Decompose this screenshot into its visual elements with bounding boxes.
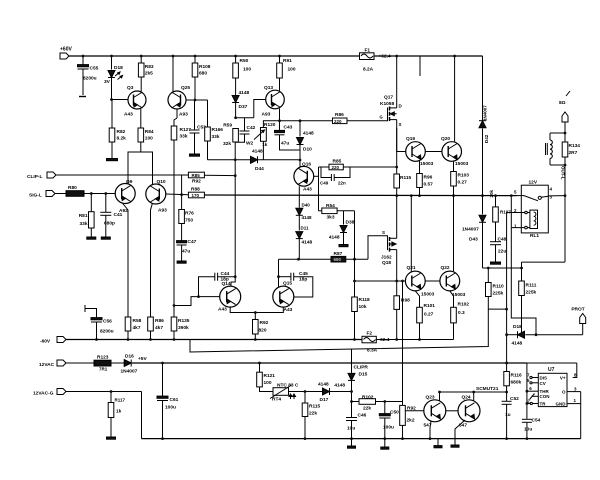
wire R92b drop xyxy=(402,281,404,405)
resistor R84 100 xyxy=(140,109,142,128)
wire R135 node to Q14 base xyxy=(174,297,220,306)
svg-text:4148: 4148 xyxy=(252,149,263,155)
svg-text:22k: 22k xyxy=(363,406,371,412)
svg-text:Q19: Q19 xyxy=(406,136,415,142)
svg-text:S: S xyxy=(399,122,402,127)
svg-text:R117: R117 xyxy=(115,398,126,403)
svg-text:4148: 4148 xyxy=(512,341,523,347)
relay contact xyxy=(517,195,524,197)
svg-text:Q22: Q22 xyxy=(441,265,450,271)
svg-text:12VAC: 12VAC xyxy=(39,362,55,368)
svg-text:1N4007: 1N4007 xyxy=(121,369,138,375)
svg-text:R116: R116 xyxy=(511,373,523,379)
resistor R98 xyxy=(396,281,398,296)
svg-text:D16: D16 xyxy=(125,354,134,360)
wire Q25 emitter to R127 xyxy=(176,109,178,118)
svg-text:22n: 22n xyxy=(338,181,346,186)
svg-text:A43: A43 xyxy=(303,187,312,193)
diode D10 4148 xyxy=(299,121,301,137)
svg-text:47u: 47u xyxy=(281,141,289,147)
svg-text:A93: A93 xyxy=(262,112,271,118)
svg-text:100u: 100u xyxy=(383,425,394,431)
svg-text:D42: D42 xyxy=(484,134,489,143)
resistor R111 225k xyxy=(522,261,566,263)
wire R54 drop to R118 xyxy=(354,211,356,297)
resistor R118 10k xyxy=(352,297,358,312)
svg-text:R58: R58 xyxy=(133,318,142,324)
svg-text:15003: 15003 xyxy=(452,292,466,298)
IC U7 555 timer xyxy=(538,373,567,406)
wire D18 to Q3 base xyxy=(110,98,113,101)
svg-text:R135: R135 xyxy=(178,318,190,324)
svg-text:8200u: 8200u xyxy=(100,329,114,335)
svg-text:TR: TR xyxy=(540,402,547,407)
resistor R102 0.3 xyxy=(450,291,454,307)
svg-text:680p: 680p xyxy=(104,221,115,227)
relay RL1 box 12V xyxy=(521,185,548,233)
wire R59 bottom to node xyxy=(234,142,236,176)
resistor R80 xyxy=(55,193,66,195)
svg-text:PROT: PROT xyxy=(571,307,584,313)
svg-text:4148: 4148 xyxy=(302,240,313,246)
resistor R85b 220 with C49 xyxy=(319,166,330,168)
svg-text:Q17: Q17 xyxy=(384,95,393,101)
ground stub under rail at C50 xyxy=(384,439,386,447)
capacitor C61 100u xyxy=(162,363,164,398)
svg-text:D18: D18 xyxy=(513,324,522,330)
transistor Q24 547 xyxy=(458,400,480,422)
svg-text:G: G xyxy=(380,115,383,120)
terminal +60V xyxy=(60,53,69,59)
svg-text:CON: CON xyxy=(540,394,550,399)
resistor R88 170 xyxy=(188,192,204,198)
svg-text:C56: C56 xyxy=(103,319,112,325)
wire R127 to R135 long xyxy=(173,140,175,317)
svg-text:R88: R88 xyxy=(191,187,200,193)
transistor Q3 A43 xyxy=(128,91,146,109)
fuse F1 8.2A xyxy=(360,53,375,60)
transistor Q22 15003 xyxy=(440,271,460,291)
svg-text:D18: D18 xyxy=(114,65,123,71)
resistor R117 1k xyxy=(110,392,112,403)
relay coil xyxy=(530,210,538,228)
svg-text:33k: 33k xyxy=(212,134,220,140)
svg-text:750: 750 xyxy=(185,218,193,224)
svg-text:4148: 4148 xyxy=(329,235,340,241)
capacitor C44 18p xyxy=(199,277,215,297)
svg-text:8.2A: 8.2A xyxy=(363,67,374,73)
resistor R116 680k xyxy=(504,372,510,386)
ground under R117 xyxy=(107,437,116,439)
resistor R81 33k xyxy=(90,194,92,212)
svg-text:8Ω: 8Ω xyxy=(559,100,566,106)
diode D37 4148 xyxy=(232,96,239,103)
wire Q16 base network xyxy=(314,175,319,177)
svg-text:4148: 4148 xyxy=(318,382,329,388)
resistor R123 xyxy=(66,362,94,364)
svg-text:A43: A43 xyxy=(284,307,293,313)
svg-text:O: O xyxy=(562,390,566,395)
svg-text:R103: R103 xyxy=(458,173,470,179)
svg-text:170: 170 xyxy=(192,193,200,198)
diode D38 4148 to ground xyxy=(343,211,345,225)
resistor R83 2k5 xyxy=(140,55,143,58)
wire bottom rail xyxy=(142,438,581,440)
svg-text:C45: C45 xyxy=(299,271,308,277)
svg-text:100: 100 xyxy=(288,67,296,73)
svg-text:4148: 4148 xyxy=(303,131,314,137)
capacitor C55 8200u xyxy=(82,55,85,58)
svg-text:R92: R92 xyxy=(192,179,201,185)
svg-text:-60V: -60V xyxy=(40,339,51,345)
thermistor RT4 NTC xyxy=(273,388,289,396)
resistor R85 horizontal xyxy=(188,172,204,178)
svg-text:D38: D38 xyxy=(346,220,355,226)
diode D41 4148 xyxy=(298,215,300,230)
svg-text:4148: 4148 xyxy=(302,215,313,220)
diode D44 4148 xyxy=(208,159,251,161)
svg-text:1N4007: 1N4007 xyxy=(483,105,488,121)
svg-text:2R7: 2R7 xyxy=(569,150,578,156)
svg-text:390k: 390k xyxy=(178,325,189,331)
svg-text:12V: 12V xyxy=(529,180,538,186)
svg-text:47u: 47u xyxy=(182,249,190,255)
wire Q9 emitter to R58 xyxy=(122,203,128,318)
wire OUT-L down xyxy=(564,165,566,262)
transistor Q23 547 xyxy=(424,400,446,422)
wire Q21 collector xyxy=(410,196,412,272)
svg-text:A93: A93 xyxy=(158,208,167,214)
svg-text:22k: 22k xyxy=(309,411,317,417)
svg-text:RT4: RT4 xyxy=(272,397,281,403)
svg-text:R76: R76 xyxy=(185,211,194,217)
svg-text:R108: R108 xyxy=(199,64,211,70)
svg-text:7R1: 7R1 xyxy=(99,367,108,372)
resistor R134 2R7 xyxy=(562,142,568,157)
wire Q21 base rail xyxy=(355,280,406,282)
svg-text:R54: R54 xyxy=(326,203,335,209)
wire relay coil drop 1 xyxy=(506,213,508,372)
svg-text:C46: C46 xyxy=(358,413,367,419)
svg-text:12VAC-G: 12VAC-G xyxy=(33,391,54,397)
capacitor C46 10u xyxy=(351,402,353,418)
svg-text:D17: D17 xyxy=(320,397,329,403)
svg-text:R102: R102 xyxy=(362,395,374,401)
svg-text:Q15: Q15 xyxy=(283,281,292,287)
svg-text:Q9: Q9 xyxy=(126,179,133,185)
wire output feedback line xyxy=(204,194,517,197)
svg-text:W2: W2 xyxy=(246,141,254,147)
svg-text:Q3: Q3 xyxy=(127,85,134,91)
resistor R115b 22k xyxy=(304,392,306,404)
ground under C41 xyxy=(101,237,110,239)
wire Q14 collector xyxy=(204,174,235,176)
svg-text:100: 100 xyxy=(264,380,272,386)
svg-text:220: 220 xyxy=(332,165,340,170)
svg-text:R111: R111 xyxy=(526,283,537,289)
svg-text:R50: R50 xyxy=(240,58,249,64)
svg-text:C52: C52 xyxy=(510,396,519,402)
svg-text:S: S xyxy=(382,230,385,235)
capacitor C54 10u xyxy=(522,418,532,420)
resistor R96 0.57 xyxy=(419,161,421,174)
resistor R54 3k3 xyxy=(322,208,337,214)
transistor Q20 15003 xyxy=(442,142,462,162)
svg-text:Q18: Q18 xyxy=(382,260,391,266)
diode D42 1N4007 xyxy=(482,56,484,121)
svg-text:RL1: RL1 xyxy=(530,233,539,239)
diode chain under Q16 - diode D40 4148 xyxy=(298,186,300,208)
svg-text:F2: F2 xyxy=(367,331,373,337)
ground under R82 xyxy=(107,159,118,161)
svg-text:R96: R96 xyxy=(424,175,433,181)
svg-text:2k2: 2k2 xyxy=(407,418,415,424)
wire Q16 collector node xyxy=(299,160,301,167)
svg-text:8200u: 8200u xyxy=(83,76,97,82)
capacitor C45 18p xyxy=(290,273,292,281)
wire Q20 collector xyxy=(453,55,456,58)
svg-text:R110: R110 xyxy=(493,284,505,290)
svg-text:100: 100 xyxy=(243,67,251,73)
transistor Q13 A93 xyxy=(266,90,285,109)
svg-text:4k7: 4k7 xyxy=(155,325,163,331)
svg-text:R91: R91 xyxy=(283,58,292,64)
trimmer R120 1k W2 xyxy=(261,128,267,142)
svg-text:+5V: +5V xyxy=(138,356,147,362)
wire Q18 gate elbow xyxy=(368,236,381,259)
ground stub under rail at Q23 xyxy=(437,439,439,446)
svg-text:680: 680 xyxy=(199,71,207,77)
svg-text:Q23: Q23 xyxy=(426,395,435,401)
wire bias rail R87 xyxy=(279,258,332,260)
wire 12VAC to U7 V+ loop xyxy=(527,362,577,364)
resistor R87 680 xyxy=(331,256,346,262)
resistor R76 750 xyxy=(181,195,183,210)
resistor R102c 22k xyxy=(352,401,360,403)
svg-text:R83: R83 xyxy=(145,64,154,70)
svg-text:R92: R92 xyxy=(260,320,269,326)
svg-text:820: 820 xyxy=(259,328,267,334)
svg-text:C54: C54 xyxy=(532,418,541,424)
svg-text:33k: 33k xyxy=(79,221,87,227)
svg-text:D15: D15 xyxy=(359,372,368,378)
svg-text:0.3: 0.3 xyxy=(458,310,465,316)
svg-text:SCMUT21: SCMUT21 xyxy=(476,386,499,392)
svg-text:R59: R59 xyxy=(223,123,232,129)
resistor R59 3.2k xyxy=(233,129,239,143)
svg-text:OUT-L: OUT-L xyxy=(561,166,566,180)
svg-text:CV: CV xyxy=(540,381,546,386)
svg-text:20k: 20k xyxy=(489,189,494,197)
svg-text:0.27: 0.27 xyxy=(458,180,468,186)
capacitor C53 xyxy=(194,100,196,130)
MOSFET Q17 K1058 xyxy=(395,55,398,58)
resistor R110 225k xyxy=(487,268,489,283)
wire Q21 Q22 bases xyxy=(425,280,440,282)
svg-text:15003: 15003 xyxy=(455,161,469,167)
resistor R82 8.2k xyxy=(111,100,113,129)
svg-text:F1: F1 xyxy=(365,48,371,54)
ground under C47 xyxy=(177,261,186,263)
resistor R91 100 xyxy=(278,55,281,58)
svg-text:R84: R84 xyxy=(145,129,154,135)
svg-text:R115: R115 xyxy=(400,175,412,181)
wire Q23 collector xyxy=(439,392,441,401)
svg-text:8.2k: 8.2k xyxy=(117,136,127,142)
capacitor C50 100u xyxy=(384,402,386,416)
svg-text:Q25: Q25 xyxy=(181,85,190,91)
wire Q23 emitter to rail xyxy=(430,421,431,439)
svg-text:R82: R82 xyxy=(117,129,126,135)
svg-text:100u: 100u xyxy=(165,405,176,411)
resistor R92b 2k2 xyxy=(400,405,406,425)
svg-text:R134: R134 xyxy=(569,143,581,149)
capacitor C42 xyxy=(244,118,246,131)
svg-text:Q24: Q24 xyxy=(462,395,471,401)
svg-text:A93: A93 xyxy=(179,112,188,118)
wire Q13 emitter row xyxy=(279,109,281,121)
svg-text:22u: 22u xyxy=(498,249,506,255)
svg-text:R87: R87 xyxy=(334,251,343,257)
svg-text:Q21: Q21 xyxy=(407,265,416,271)
svg-text:3V: 3V xyxy=(104,79,111,85)
wire Q19 Q20 bases xyxy=(425,151,442,153)
svg-text:U7: U7 xyxy=(548,367,555,373)
resistor R108 680 xyxy=(194,55,197,58)
svg-text:C50: C50 xyxy=(390,410,399,416)
resistor R107 20k xyxy=(495,196,497,207)
svg-text:10u: 10u xyxy=(347,426,355,432)
svg-text:GND: GND xyxy=(556,402,567,407)
node bias - wire to Q13 base xyxy=(234,116,237,119)
resistor R58 4k7 xyxy=(125,317,131,331)
ground under D38 xyxy=(339,245,348,247)
U7 pin stubs left xyxy=(532,377,539,379)
svg-text:1k: 1k xyxy=(262,142,268,148)
svg-text:SIG-L: SIG-L xyxy=(29,193,42,199)
transistor Q19 15003 xyxy=(406,142,426,162)
svg-text:J162: J162 xyxy=(381,255,392,261)
svg-text:220: 220 xyxy=(334,119,342,124)
svg-text:C61: C61 xyxy=(170,397,179,403)
svg-text:D40: D40 xyxy=(302,203,311,208)
wire Q10 base tee xyxy=(166,193,189,196)
inductor L1 output network xyxy=(562,112,568,122)
svg-text:R123: R123 xyxy=(97,355,109,361)
svg-text:Q20: Q20 xyxy=(441,136,450,142)
svg-text:33k: 33k xyxy=(180,134,188,140)
svg-text:R101: R101 xyxy=(424,303,436,309)
wire divider top xyxy=(483,267,522,269)
resistor R103 0.27 xyxy=(453,161,455,172)
svg-text:A43: A43 xyxy=(218,307,227,313)
svg-text:R102: R102 xyxy=(458,302,470,308)
transistor Q21 15003 xyxy=(405,271,425,291)
fuse F2 6.3A xyxy=(362,336,376,343)
svg-text:NTC 83 C: NTC 83 C xyxy=(277,383,299,389)
wire Q24 collector xyxy=(473,392,475,401)
svg-text:CLIP-L: CLIP-L xyxy=(27,174,43,180)
resistor R92 820 xyxy=(254,313,256,320)
svg-text:C47: C47 xyxy=(188,239,197,245)
capacitor C56 8200u xyxy=(96,323,98,339)
svg-text:C42: C42 xyxy=(247,125,256,131)
svg-text:680k: 680k xyxy=(511,380,522,386)
diode D17 4148 xyxy=(323,388,330,395)
transistor Q14 A43 xyxy=(220,286,241,307)
wire SCMUTE line xyxy=(440,391,507,393)
transistor Q25 A93 xyxy=(168,91,186,109)
svg-text:100: 100 xyxy=(145,136,153,142)
svg-text:10k: 10k xyxy=(359,304,367,310)
svg-text:D10: D10 xyxy=(303,147,312,153)
svg-text:225k: 225k xyxy=(493,291,504,297)
resistor R121 100 xyxy=(259,363,261,372)
svg-text:0.57: 0.57 xyxy=(424,182,434,188)
wire relay coil drop 2 xyxy=(510,196,512,228)
svg-text:32k: 32k xyxy=(223,141,231,147)
svg-text:R166: R166 xyxy=(212,127,224,133)
svg-text:C43: C43 xyxy=(284,125,293,131)
wire Q17 source to Q19 base xyxy=(397,128,406,152)
wire 12VAC-G elbow to bottom rail xyxy=(141,392,143,439)
ground stub under rail at C46 xyxy=(351,439,353,446)
wire Q15 collector to bias rail xyxy=(278,277,280,287)
svg-text:680: 680 xyxy=(334,257,342,262)
MOSFET Q18 J162 xyxy=(381,236,388,250)
svg-text:1u: 1u xyxy=(505,412,511,418)
resistor R115 source xyxy=(396,167,398,174)
resistor R86b 4k7 xyxy=(148,317,154,331)
wire emitters Q14 Q15 to R92 xyxy=(230,307,283,312)
wire Q25 base to R166 xyxy=(186,99,208,101)
capacitor C41 680p xyxy=(105,194,107,213)
transistor Q15 A43 xyxy=(273,286,294,307)
wire U7 out down to rail xyxy=(580,392,582,439)
svg-text:R85: R85 xyxy=(192,173,201,178)
capacitor C52 1u xyxy=(506,392,508,401)
svg-text:547: 547 xyxy=(459,423,467,429)
svg-text:10u: 10u xyxy=(524,427,532,433)
svg-text:Q10: Q10 xyxy=(157,179,166,185)
capacitor C48 22u xyxy=(495,222,497,242)
svg-text:R86: R86 xyxy=(335,112,344,118)
resistor R127 33k xyxy=(171,126,177,140)
ground under C53 xyxy=(190,154,200,156)
svg-text:4148: 4148 xyxy=(239,90,250,96)
diode D18b 4148 xyxy=(507,334,518,336)
svg-text:R86: R86 xyxy=(155,318,164,324)
svg-text:D11: D11 xyxy=(301,226,310,231)
svg-text:D44: D44 xyxy=(255,166,264,172)
svg-text:1k: 1k xyxy=(116,409,122,415)
wire Q22 collector xyxy=(453,196,455,272)
svg-text:R85: R85 xyxy=(333,159,342,165)
svg-text:A43: A43 xyxy=(124,112,133,118)
svg-text:D43: D43 xyxy=(469,237,478,243)
svg-text:C55: C55 xyxy=(90,66,99,72)
capacitor C43 47u xyxy=(279,121,281,132)
svg-text:R115: R115 xyxy=(309,404,321,410)
svg-text:K1058: K1058 xyxy=(380,101,394,107)
wire stub test point xyxy=(419,56,421,76)
wire Q25 collector xyxy=(172,55,175,58)
svg-text:R81: R81 xyxy=(79,213,88,219)
svg-text:1N4007: 1N4007 xyxy=(462,227,479,233)
diode D15 CLIPR 4148 xyxy=(351,349,353,373)
wire top +60V rail xyxy=(69,55,483,57)
svg-text:C49: C49 xyxy=(320,181,329,186)
